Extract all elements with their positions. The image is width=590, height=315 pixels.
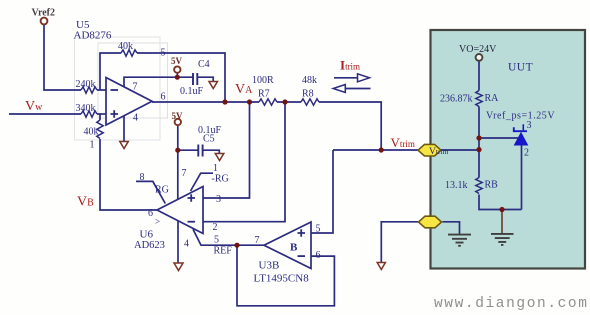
wire U6 pin5 REF to U3B output — [193, 229, 264, 245]
junction dot ground branch — [499, 207, 504, 212]
wire C4 right plate to ground arrow — [198, 77, 214, 81]
svg-text:0.1uF: 0.1uF — [180, 86, 204, 97]
svg-text:Vref2: Vref2 — [32, 8, 56, 19]
wire ground stem right — [501, 210, 503, 234]
wire U6 pin2 up to R7 R8 junction — [203, 102, 285, 222]
svg-text:236.87k: 236.87k — [440, 94, 473, 105]
svg-text:RG: RG — [155, 185, 169, 196]
UUT block — [431, 30, 586, 269]
op-amp U3B plus sign — [298, 229, 306, 237]
junction dot REF U3B output — [234, 243, 239, 248]
wire R3 to U5 plus input — [97, 113, 106, 115]
svg-text:48k: 48k — [302, 75, 317, 86]
wire U5 output rail to R7 — [152, 101, 259, 103]
svg-text:5V: 5V — [171, 56, 183, 66]
faint selection box around U5 — [75, 37, 161, 140]
junction dot diode branch — [476, 135, 481, 140]
wire blank port right to ground — [443, 222, 460, 235]
svg-text:U3B: U3B — [259, 260, 280, 272]
wire U6 pin8 +RG stub — [136, 181, 165, 203]
svg-text:RA: RA — [485, 93, 500, 104]
wire U5 pin7 to 5V and C4 — [124, 77, 193, 87]
svg-text:C4: C4 — [198, 59, 210, 70]
wire blank port left to power arrow — [381, 222, 419, 262]
junction dot Vtrim node — [379, 147, 384, 152]
svg-text:LT1495CN8: LT1495CN8 — [254, 273, 310, 285]
op-amp U3B minus sign — [298, 255, 306, 257]
svg-text:2: 2 — [213, 222, 218, 233]
svg-text:R7: R7 — [258, 89, 270, 100]
resistor vertical 40k — [97, 120, 103, 139]
svg-text:U6: U6 — [140, 229, 154, 241]
svg-text:www.diangon.com: www.diangon.com — [434, 296, 589, 312]
wire U3B pin5 up to Vtrim rail — [311, 150, 333, 233]
junction dot feedback output — [222, 99, 227, 104]
wire R2 to U5 minus input — [97, 89, 106, 91]
junction dot Vtrim entry — [476, 147, 481, 152]
op-amp U5 — [106, 78, 152, 126]
pin circle 5V upper — [174, 66, 180, 72]
svg-text:6: 6 — [148, 208, 153, 219]
power arrow U6 pin4 — [174, 263, 183, 271]
wire 5V pin stub to C4 junction — [176, 73, 178, 77]
pin circle 5V lower — [175, 119, 181, 125]
capacitor C4 plates — [193, 73, 197, 85]
wire U6 pin4 down to ground arrow — [177, 221, 179, 263]
pin circle VO — [476, 54, 483, 61]
wire VO circle down to RA — [478, 61, 480, 91]
svg-text:2: 2 — [524, 148, 529, 159]
svg-text:6: 6 — [316, 250, 321, 261]
svg-text:>: > — [155, 217, 160, 227]
svg-text:40k: 40k — [81, 79, 96, 90]
svg-text:4: 4 — [133, 113, 138, 124]
svg-text:7: 7 — [182, 168, 187, 179]
capacitor C5 plates — [198, 145, 202, 157]
op-amp U6 minus sign — [188, 221, 196, 223]
junction dot C4 5V — [175, 75, 180, 80]
junction dot VA R7 — [247, 99, 252, 104]
resistor RA — [476, 91, 482, 107]
resistor R7 — [259, 99, 277, 105]
wire 5V2 stub down to C5 junction and U6 pin7 — [177, 125, 179, 199]
svg-text:-RG: -RG — [212, 174, 229, 185]
svg-text:AD8276: AD8276 — [74, 30, 112, 42]
svg-text:VO=24V: VO=24V — [459, 44, 497, 55]
wire U5 pin4 down to ground arrow — [123, 116, 125, 142]
wire diode branch — [479, 137, 518, 139]
wire feedback resistor to output node — [137, 53, 225, 102]
ground symbol left — [448, 235, 471, 246]
wire plus node down to vertical resistor — [99, 114, 101, 120]
svg-text:7: 7 — [133, 82, 138, 93]
Itrim arrow left — [345, 88, 370, 90]
pin circle Vref2 — [41, 18, 48, 25]
svg-text:C5: C5 — [203, 134, 215, 145]
wire Vtrim rail to port — [333, 149, 419, 151]
svg-text:13.1k: 13.1k — [445, 180, 468, 191]
wire R7 to R8 — [277, 101, 301, 103]
power arrow below blank port branch — [377, 263, 385, 270]
wire Vtrim port to UUT divider node — [437, 149, 479, 151]
junction dot R7 R8 — [282, 99, 287, 104]
svg-text:Vtrim: Vtrim — [429, 147, 449, 157]
svg-text:Vw: Vw — [25, 99, 43, 114]
wire diode anode down — [521, 145, 523, 210]
power arrow U5 pin4 — [120, 142, 129, 149]
svg-text:REF: REF — [214, 246, 233, 257]
svg-text:VB: VB — [77, 195, 94, 210]
svg-text:RB: RB — [485, 180, 499, 191]
svg-text:3: 3 — [527, 120, 532, 131]
wire Vw input — [9, 113, 81, 115]
junction dot C5 5V — [175, 148, 180, 153]
resistor RB — [476, 178, 482, 194]
wire C5 right plate to ground arrow — [203, 150, 219, 153]
svg-text:5: 5 — [214, 235, 219, 246]
wire R8 to Vtrim corner — [319, 102, 381, 150]
power arrow below C5 — [215, 154, 224, 161]
wire U6 pin1 -RG stub — [191, 173, 214, 191]
svg-text:AD623: AD623 — [134, 240, 165, 251]
resistor R2 40k — [81, 87, 97, 93]
wire feedback tap up from minus node — [100, 53, 121, 90]
ground symbol right — [491, 234, 514, 245]
power arrow below C4 — [209, 82, 218, 89]
svg-text:8: 8 — [140, 172, 145, 183]
svg-text:4: 4 — [184, 239, 189, 250]
svg-text:1: 1 — [90, 140, 95, 151]
op-amp U3B — [264, 222, 311, 269]
op-amp U6 — [157, 187, 203, 234]
svg-text:5: 5 — [316, 224, 321, 235]
svg-text:6: 6 — [161, 92, 166, 103]
resistor feedback 40k — [121, 50, 137, 56]
svg-text:3: 3 — [216, 194, 221, 205]
svg-text:7: 7 — [255, 235, 260, 246]
svg-text:UUT: UUT — [508, 62, 533, 74]
svg-text:Vref_ps=1.25V: Vref_ps=1.25V — [486, 111, 555, 122]
resistor R3 40k — [81, 111, 97, 117]
zener diode D pin3 stub — [522, 124, 524, 130]
svg-text:100R: 100R — [252, 75, 274, 86]
svg-text:VA: VA — [235, 82, 253, 97]
port Vtrim hexagon — [418, 144, 441, 156]
svg-text:B: B — [290, 242, 298, 254]
wire U6 pin3 up to VA node — [203, 102, 250, 198]
resistor R8 — [301, 99, 319, 105]
svg-text:40k: 40k — [84, 127, 99, 138]
svg-text:1: 1 — [213, 163, 218, 174]
op-amp U5 minus sign — [111, 89, 119, 91]
port blank hexagon — [419, 216, 442, 228]
svg-text:R8: R8 — [302, 89, 314, 100]
svg-text:40k: 40k — [118, 41, 133, 52]
wire Vref2 vertical down and to R2 — [44, 25, 81, 91]
wire C5 junction to left plate — [178, 149, 198, 151]
zener diode D body — [515, 133, 528, 145]
Itrim arrow right — [334, 77, 358, 79]
zener diode D cathode bar — [514, 127, 527, 131]
svg-text:5V: 5V — [172, 111, 184, 121]
wire RA to RB divider column — [478, 107, 480, 178]
op-amp U5 plus sign — [111, 110, 119, 118]
wire U3B feedback loop output to pin6 — [237, 245, 334, 306]
svg-text:40k: 40k — [81, 103, 96, 114]
wire vertical resistor down to VB rail and U6 output — [100, 139, 157, 210]
svg-text:5: 5 — [161, 48, 166, 59]
op-amp U6 plus sign — [188, 194, 196, 202]
faint selection box around U5 op-amp body — [98, 43, 168, 118]
wire RB bottom to diode return — [479, 195, 522, 210]
